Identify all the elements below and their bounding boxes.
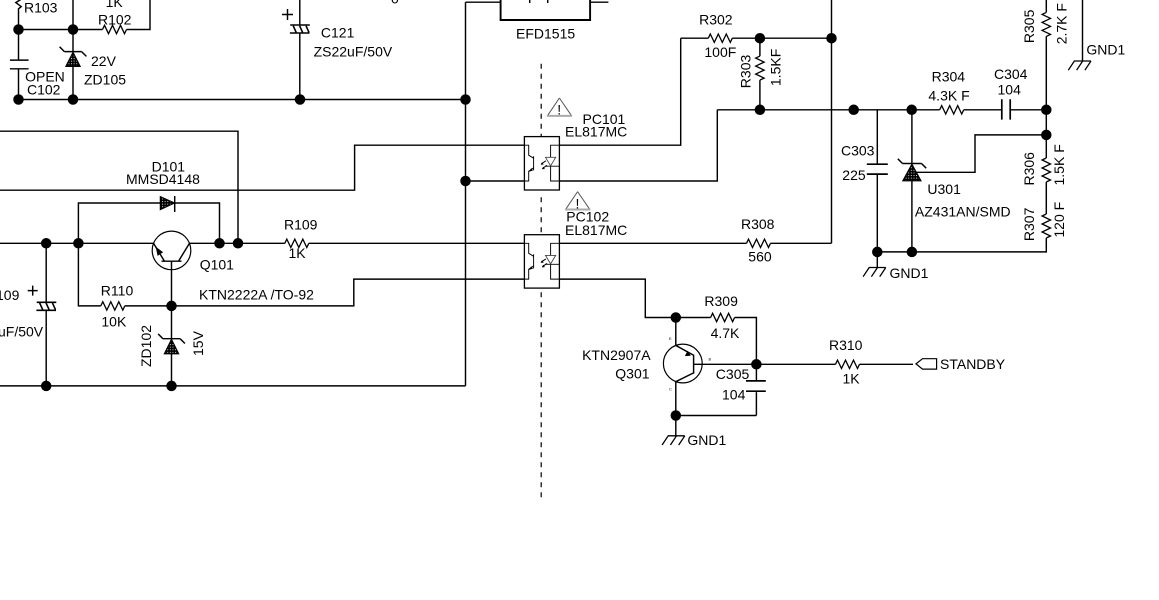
node (872, 247, 883, 258)
svg-text:R309: R309 (704, 293, 738, 309)
svg-text:GND1: GND1 (890, 265, 929, 281)
node (755, 33, 766, 44)
resistor R308 (559, 242, 831, 244)
svg-text:100F: 100F (704, 44, 736, 60)
transformer T EFD1515 (501, 0, 590, 20)
shunt regulator U301 (898, 110, 926, 252)
svg-text:22V: 22V (91, 53, 117, 69)
svg-text:uF/50V: uF/50V (0, 324, 44, 340)
capacitor C121 (299, 0, 301, 100)
wire (559, 279, 675, 317)
node (1041, 130, 1052, 141)
resistor R302 (681, 37, 709, 39)
resistor R304 (940, 106, 964, 114)
node (68, 94, 79, 105)
svg-text:4.7K: 4.7K (711, 325, 740, 341)
ground GND1 (Q301) (675, 416, 677, 436)
transistor Q301 (663, 344, 702, 383)
svg-text:225: 225 (842, 167, 866, 183)
svg-text:R305: R305 (1021, 9, 1037, 43)
warning triangle 2 (566, 192, 590, 210)
svg-text:1.5K F: 1.5K F (1051, 144, 1067, 185)
svg-text:Q101: Q101 (200, 257, 234, 273)
node (41, 238, 52, 249)
svg-text:!: ! (557, 102, 561, 118)
svg-text:ZD102: ZD102 (138, 325, 154, 367)
svg-text:MMSD4148: MMSD4148 (126, 171, 200, 187)
svg-text:R304: R304 (932, 68, 966, 84)
svg-text:104: 104 (722, 387, 746, 403)
svg-text:R102: R102 (98, 12, 132, 28)
node (848, 105, 859, 116)
svg-text:4.3K F: 4.3K F (928, 88, 969, 104)
connector STANDBY (916, 359, 937, 369)
node (73, 238, 84, 249)
resistor R109 (285, 239, 309, 247)
wire (732, 37, 831, 39)
svg-text:109: 109 (0, 287, 20, 303)
resistor R306 (1045, 135, 1047, 158)
wire (466, 1, 501, 3)
node (68, 24, 79, 35)
wire (172, 279, 525, 306)
node (460, 176, 471, 187)
wire (19, 29, 103, 31)
wire (72, 0, 74, 30)
svg-text:EL817MC: EL817MC (565, 124, 627, 140)
svg-text:C102: C102 (27, 82, 61, 98)
svg-text:R110: R110 (101, 283, 134, 299)
svg-text:R308: R308 (741, 216, 775, 232)
wire (559, 110, 717, 181)
svg-text:C305: C305 (716, 366, 750, 382)
svg-text:R302: R302 (699, 12, 733, 28)
svg-text:C: C (669, 387, 672, 392)
wire (309, 242, 525, 244)
resistor R103 (16, 0, 22, 30)
node (13, 24, 24, 35)
svg-text:ZS22uF/50V: ZS22uF/50V (314, 44, 393, 60)
resistor R307 (877, 182, 1046, 252)
svg-text:R303: R303 (737, 55, 753, 89)
wire (559, 38, 680, 145)
svg-text:GND1: GND1 (1086, 42, 1125, 58)
svg-text:C303: C303 (841, 142, 875, 158)
node (671, 312, 682, 323)
svg-text:E: E (669, 336, 672, 341)
resistor R309 (676, 318, 757, 365)
node (755, 105, 766, 116)
node (41, 381, 52, 392)
node (233, 238, 244, 249)
svg-text:KTN2222A /TO-92: KTN2222A /TO-92 (199, 287, 314, 303)
svg-text:2.7K F: 2.7K F (1054, 3, 1070, 44)
svg-text:1K: 1K (289, 245, 307, 261)
wire (717, 109, 939, 111)
svg-text:KTN2907A: KTN2907A (582, 347, 651, 363)
node (166, 381, 177, 392)
svg-text:120 F: 120 F (1051, 202, 1067, 238)
wire (0, 131, 238, 243)
svg-text:ZD105: ZD105 (84, 72, 126, 88)
wire (127, 0, 151, 30)
svg-text:104: 104 (998, 82, 1022, 98)
wire (590, 1, 608, 3)
wire (465, 2, 467, 386)
resistor R310 (756, 363, 913, 365)
node (460, 94, 471, 105)
capacitor C109 (45, 243, 47, 386)
resistor R305 (1045, 0, 1047, 110)
svg-text:STANDBY: STANDBY (940, 356, 1006, 372)
svg-text:R109: R109 (284, 217, 318, 233)
node (906, 105, 917, 116)
optocoupler PC102 (524, 235, 559, 288)
ground GND1 (regulator) (876, 252, 878, 268)
node (166, 301, 177, 312)
capacitor C304 (964, 109, 1047, 111)
svg-text:EFD1515: EFD1515 (516, 26, 575, 42)
transistor Q101 (152, 231, 191, 270)
wire (466, 180, 525, 182)
svg-text:Q301: Q301 (615, 365, 649, 381)
svg-text:EL817MC: EL817MC (565, 222, 627, 238)
capacitor C305 (676, 364, 757, 415)
zener diode ZD102 (158, 306, 185, 386)
capacitor C102 (10, 30, 29, 100)
wire (831, 0, 833, 243)
svg-text:R310: R310 (829, 337, 863, 353)
svg-text:R103: R103 (24, 0, 58, 16)
resistor R110 (78, 243, 171, 306)
svg-text:0: 0 (391, 0, 399, 6)
node (13, 94, 24, 105)
wire (0, 242, 285, 244)
wire (0, 385, 466, 387)
node (907, 247, 918, 258)
node (295, 94, 306, 105)
resistor R102 (103, 25, 127, 33)
svg-text:C304: C304 (994, 66, 1028, 82)
svg-text:10K: 10K (101, 314, 127, 330)
svg-text:AZ431AN/SMD: AZ431AN/SMD (915, 204, 1011, 220)
svg-text:R307: R307 (1021, 207, 1037, 241)
ground GND1 (top right) (1082, 0, 1084, 61)
svg-text:R306: R306 (1021, 152, 1037, 186)
optocoupler PC101 (524, 137, 559, 190)
zener diode ZD105 (60, 30, 87, 100)
svg-text:GND1: GND1 (687, 432, 726, 448)
node (826, 33, 837, 44)
diode D101 (78, 196, 219, 243)
node (671, 410, 682, 421)
wire (0, 145, 524, 190)
wire (1045, 110, 1047, 135)
svg-text:15V: 15V (190, 330, 206, 356)
svg-text:C121: C121 (321, 25, 355, 41)
svg-text:U301: U301 (927, 181, 961, 197)
wire (19, 99, 466, 101)
node (1041, 105, 1052, 116)
node (214, 238, 225, 249)
svg-text:1.5KF: 1.5KF (767, 49, 783, 86)
svg-text:B: B (709, 357, 712, 362)
svg-text:1K: 1K (106, 0, 124, 10)
dashed separation line (540, 64, 542, 502)
capacitor C303 (876, 110, 878, 252)
resistor R303 (759, 38, 761, 110)
svg-text:560: 560 (748, 249, 772, 265)
svg-text:1K: 1K (843, 371, 861, 387)
node (751, 359, 762, 370)
wire (917, 135, 1047, 172)
warning triangle 1 (548, 98, 572, 116)
